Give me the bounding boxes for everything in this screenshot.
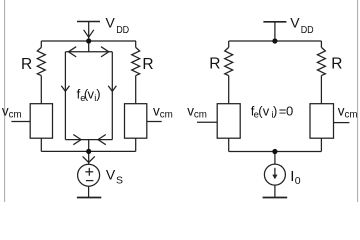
svg-text:0: 0 — [295, 175, 301, 187]
svg-text:V: V — [290, 14, 300, 30]
svg-text:cm: cm — [345, 109, 358, 120]
svg-text:R: R — [21, 56, 32, 73]
svg-text:DD: DD — [301, 25, 314, 36]
svg-text:R: R — [209, 56, 220, 73]
svg-text:): ) — [273, 103, 277, 118]
svg-text:V: V — [106, 14, 116, 30]
svg-text:DD: DD — [116, 25, 129, 36]
svg-text:V: V — [106, 167, 116, 183]
svg-text:v: v — [263, 103, 270, 118]
svg-text:cm: cm — [194, 109, 207, 120]
svg-text:cm: cm — [9, 109, 22, 120]
svg-text:R: R — [142, 56, 153, 73]
svg-text:cm: cm — [160, 109, 173, 120]
svg-text:): ) — [96, 86, 100, 101]
svg-text:S: S — [116, 175, 123, 187]
svg-text:R: R — [331, 56, 342, 73]
svg-text:0: 0 — [286, 103, 293, 118]
